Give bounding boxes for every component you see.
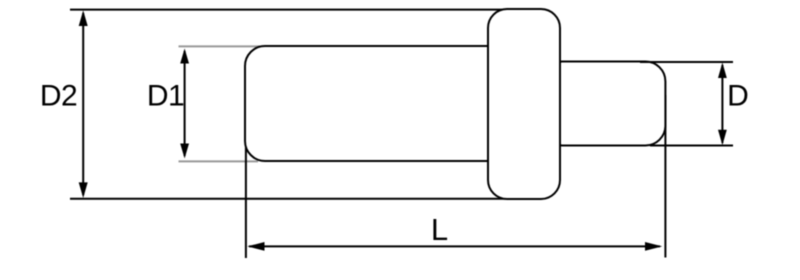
flange (488, 9, 560, 199)
arrowhead D2 up (79, 10, 88, 26)
arrowhead D down (718, 130, 727, 146)
dimension line D2 (82, 13, 84, 195)
extension line top for D1 (gray) (179, 45, 261, 47)
dimension line D1 (184, 51, 186, 156)
extension line bottom for D2 (flange bottom) (70, 198, 506, 200)
arrowhead D1 up (180, 49, 189, 64)
shaft stub (556, 61, 665, 145)
dimension line L (249, 245, 660, 247)
arrowhead D up (718, 63, 727, 79)
extension line bottom for D (stub bottom) (650, 145, 733, 147)
svg-text:D1: D1 (147, 80, 184, 113)
extension line top for D (stub top) (640, 61, 733, 63)
arrowhead D2 down (79, 182, 88, 198)
dimension line D (721, 65, 723, 143)
svg-text:D: D (727, 80, 749, 113)
extension line top for D2 (flange top) (70, 9, 502, 11)
svg-text:L: L (431, 212, 448, 247)
extension line bottom for D1 (gray) (179, 160, 259, 162)
extension line right for L (664, 95, 666, 258)
svg-text:D2: D2 (40, 80, 77, 113)
main body of part (245, 46, 495, 161)
arrowhead L right (645, 242, 662, 251)
arrowhead D1 down (180, 144, 189, 159)
extension line left for L (245, 140, 247, 258)
arrowhead L left (247, 242, 264, 251)
